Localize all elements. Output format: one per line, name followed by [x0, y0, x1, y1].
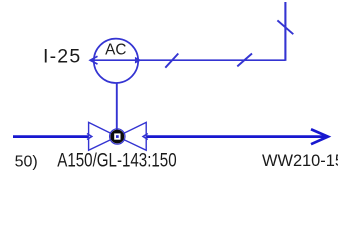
- valve V1 center white square: [114, 133, 120, 139]
- valve V1 bowtie left triangle: [89, 122, 118, 150]
- wire: actuator stem from instrument to valve: [116, 83, 118, 137]
- svg-text:50): 50): [15, 154, 38, 171]
- wire: signal riser (vertical): [284, 2, 286, 61]
- signal arrow at bubble left edge: [90, 56, 97, 64]
- signal slash 1: [165, 54, 178, 68]
- signal slash 3 on riser: [277, 20, 293, 34]
- junction dot at bubble right edge: [136, 58, 141, 63]
- valve V1 center black disc: [110, 130, 124, 144]
- valve V1 bowtie right triangle: [117, 122, 146, 150]
- instrument bubble U1 circle: [94, 39, 138, 83]
- svg-text:AC: AC: [105, 41, 126, 58]
- wire: main pipe left segment: [13, 135, 89, 138]
- svg-text:A150/GL-143:150: A150/GL-143:150: [57, 149, 176, 171]
- svg-text:I-25: I-25: [43, 46, 81, 68]
- wire: main pipe right segment: [146, 135, 327, 138]
- valve V1 center blue ring: [110, 129, 125, 144]
- valve outlet connection arrow (right): [143, 134, 148, 140]
- wire: signal line through bubble to riser: [91, 59, 286, 61]
- valve V1 center blue dot: [116, 135, 119, 138]
- svg-text:WW210-150: WW210-150: [262, 152, 338, 170]
- valve inlet connection arrow (left): [87, 134, 92, 140]
- signal slash 2: [237, 54, 252, 67]
- pipe flow arrowhead (right end): [311, 129, 328, 144]
